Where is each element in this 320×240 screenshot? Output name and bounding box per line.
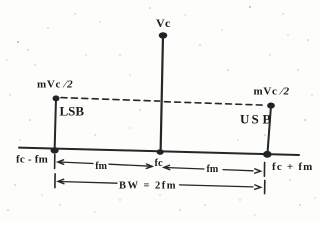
svg-text:USB: USB — [240, 112, 272, 127]
svg-text:mVc ⁄2: mVc ⁄2 — [254, 85, 290, 97]
svg-text:fm: fm — [207, 164, 219, 175]
svg-text:fm: fm — [95, 161, 107, 172]
svg-text:mVc ⁄2: mVc ⁄2 — [37, 79, 73, 91]
svg-text:BW = 2fm: BW = 2fm — [119, 181, 177, 192]
svg-text:fc + fm: fc + fm — [272, 161, 314, 173]
svg-text:fc - fm: fc - fm — [16, 153, 48, 165]
svg-text:LSB: LSB — [60, 104, 85, 119]
svg-text:Vc: Vc — [156, 16, 171, 30]
svg-text:fc: fc — [155, 158, 163, 169]
